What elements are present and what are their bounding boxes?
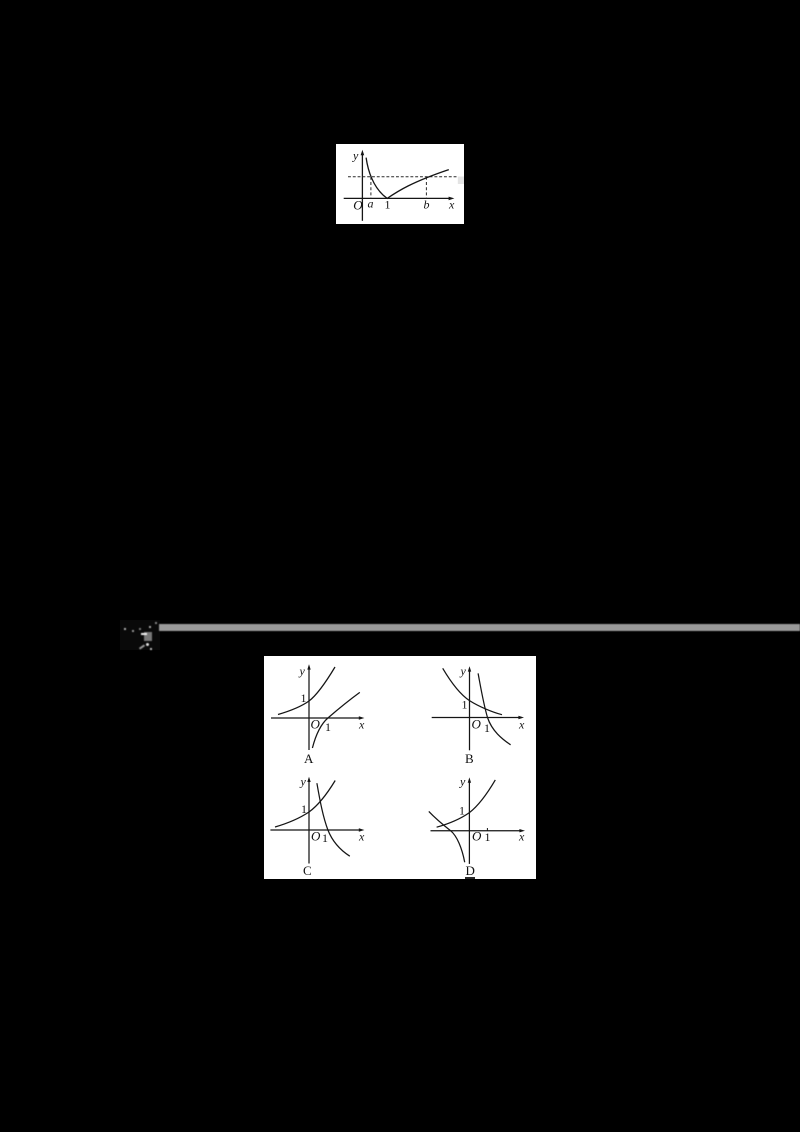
B exp decay curve (443, 668, 502, 714)
C exp curve (275, 781, 335, 828)
svg-text:a: a (368, 197, 374, 211)
svg-text:1: 1 (385, 198, 391, 212)
svg-text:b: b (424, 198, 430, 212)
A y-axis (308, 668, 310, 750)
white panel: |log| graph (336, 144, 464, 224)
mark below D at panel bottom edge (465, 877, 475, 879)
svg-text:O: O (472, 717, 482, 732)
D second curve (429, 811, 465, 862)
x-axis arrowhead (449, 197, 455, 201)
C y-axis (308, 781, 310, 864)
svg-text:O: O (311, 829, 321, 844)
svg-text:1: 1 (485, 830, 491, 844)
svg-text:y: y (460, 664, 467, 678)
A x-axis (271, 717, 362, 719)
svg-text:x: x (358, 830, 365, 844)
svg-text:O: O (353, 198, 363, 213)
C log decay curve (317, 783, 350, 856)
dashed vertical at b (425, 177, 427, 199)
B log decay curve (478, 673, 511, 744)
svg-text:O: O (472, 829, 482, 844)
svg-text:y: y (352, 149, 359, 163)
white panel: four answer graphs (264, 656, 536, 879)
A exp curve (278, 667, 335, 715)
C x-axis (270, 829, 361, 831)
svg-text:x: x (518, 830, 525, 844)
dashed vertical at a (370, 177, 372, 199)
gray divider bar (159, 624, 800, 631)
svg-text:B: B (465, 751, 474, 766)
gray patch right end of dashes (458, 177, 464, 185)
svg-text:C: C (303, 863, 312, 878)
B y-axis (469, 670, 471, 750)
y-axis (361, 154, 363, 221)
y-axis arrowhead (361, 150, 365, 156)
svg-text:1: 1 (322, 831, 328, 845)
D y-axis (468, 781, 470, 864)
x-axis (344, 197, 452, 199)
D x-axis (431, 830, 523, 832)
svg-text:y: y (299, 664, 306, 678)
B x-axis (432, 717, 521, 719)
svg-text:1: 1 (325, 720, 331, 734)
svg-text:1: 1 (459, 804, 465, 818)
svg-text:y: y (300, 775, 307, 789)
svg-text:1: 1 (484, 721, 490, 735)
svg-text:x: x (448, 198, 455, 212)
curve |log x| (366, 158, 449, 199)
svg-text:A: A (304, 751, 314, 766)
D exp curve (437, 780, 496, 827)
svg-text:x: x (518, 718, 525, 732)
svg-text:O: O (311, 717, 321, 732)
svg-text:1: 1 (462, 698, 468, 712)
svg-text:1: 1 (301, 691, 307, 705)
dashed horizontal line (348, 176, 458, 178)
svg-text:y: y (459, 775, 466, 789)
svg-text:1: 1 (301, 802, 307, 816)
svg-text:D: D (466, 863, 475, 878)
svg-text:x: x (358, 718, 365, 732)
A log curve (312, 692, 359, 748)
faint smudge marks (120, 620, 160, 650)
D tick at 1 (486, 828, 488, 831)
